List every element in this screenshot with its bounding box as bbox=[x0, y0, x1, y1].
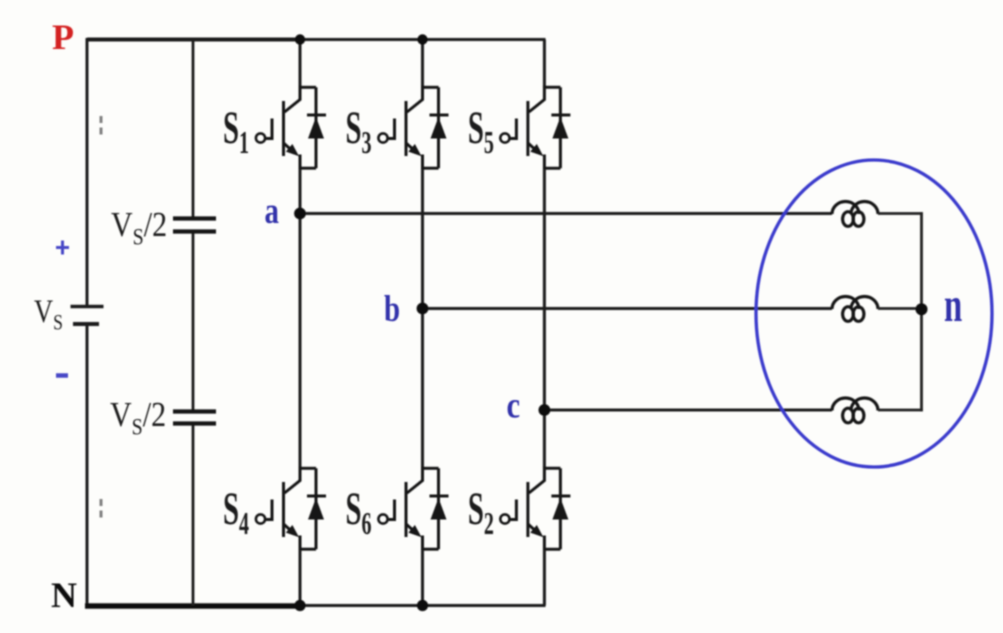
wire capacitor branch top bbox=[192, 38, 195, 217]
svg-text:N: N bbox=[51, 575, 77, 615]
svg-text:VS/2: VS/2 bbox=[110, 396, 166, 440]
load ellipse bbox=[756, 160, 992, 467]
svg-text:S6: S6 bbox=[346, 484, 372, 541]
svg-text:P: P bbox=[52, 17, 74, 57]
wire leg2 emitter to bottom rail bbox=[421, 550, 424, 606]
svg-text:S2: S2 bbox=[468, 484, 494, 541]
svg-text:VS/2: VS/2 bbox=[111, 206, 167, 250]
label S3 bbox=[346, 103, 372, 160]
label - polarity bbox=[56, 373, 68, 378]
svg-text:S4: S4 bbox=[223, 484, 249, 541]
switch S6 IGBT with diode bbox=[378, 467, 448, 551]
label S2 bbox=[468, 484, 494, 541]
node c dot bbox=[539, 404, 551, 416]
dashed artifact lower bbox=[100, 499, 103, 522]
wire bottom DC rail (right segment) bbox=[300, 604, 546, 607]
wire leg1 phase lead a bbox=[299, 169, 302, 468]
label S6 bbox=[346, 484, 372, 541]
node n dot bbox=[916, 303, 928, 315]
wire leg2 collector lead bbox=[421, 40, 424, 88]
label b bbox=[384, 289, 400, 330]
wire capacitor branch middle bbox=[192, 234, 195, 410]
svg-text:a: a bbox=[265, 191, 280, 232]
battery Vs top plate bbox=[71, 305, 104, 308]
wire leg3 collector lead bbox=[543, 40, 546, 88]
svg-text:S3: S3 bbox=[346, 103, 372, 160]
wire leg1 emitter to bottom rail bbox=[299, 550, 302, 606]
label + polarity bbox=[56, 241, 69, 255]
wire phase c to load bbox=[544, 409, 832, 412]
switch S5 IGBT with diode bbox=[500, 86, 570, 170]
label c bbox=[507, 386, 521, 426]
wire left DC bus lower bbox=[86, 325, 89, 608]
wire capacitor branch bottom bbox=[192, 426, 195, 606]
svg-text:S1: S1 bbox=[223, 103, 249, 160]
battery Vs bottom plate bbox=[73, 322, 99, 326]
wire leg2 phase lead b bbox=[421, 169, 424, 468]
svg-text:b: b bbox=[384, 289, 400, 330]
switch S1 IGBT with diode bbox=[256, 86, 326, 170]
switch S4 IGBT with diode bbox=[256, 467, 326, 551]
wire leg1 collector lead bbox=[299, 40, 302, 88]
wire top DC rail P (thick left segment) bbox=[87, 38, 301, 42]
wire phase c coil to neutral bus bbox=[878, 409, 923, 412]
label Vs/2 upper bbox=[111, 206, 167, 250]
junction dot bottom rail leg1 bbox=[294, 600, 305, 611]
junction dot top rail leg2 bbox=[417, 34, 427, 44]
wire neutral bus vertical bbox=[920, 212, 923, 411]
svg-text:S5: S5 bbox=[468, 103, 494, 160]
inductor phase a bbox=[832, 202, 878, 227]
wire top DC rail (right segment to leg 3) bbox=[300, 38, 546, 41]
wire leg3 emitter to bottom rail bbox=[543, 550, 546, 606]
junction dot top rail leg1 bbox=[295, 34, 305, 44]
wire phase b to load bbox=[423, 307, 833, 310]
node a dot bbox=[294, 208, 306, 220]
wire bottom DC rail N (thick left segment) bbox=[85, 603, 302, 609]
wire leg3 phase lead c bbox=[543, 169, 546, 468]
junction dot bottom rail leg2 bbox=[417, 600, 428, 611]
label S5 bbox=[468, 103, 494, 160]
label S4 bbox=[223, 484, 249, 541]
label a bbox=[265, 191, 280, 232]
wire left DC bus upper bbox=[86, 38, 89, 306]
switch S3 IGBT with diode bbox=[378, 86, 448, 170]
capacitor C1 Vs/2 plates bbox=[173, 219, 216, 232]
inductor phase c bbox=[832, 398, 878, 423]
capacitor C2 Vs/2 plates bbox=[173, 412, 216, 424]
label Vs bbox=[34, 293, 63, 335]
svg-text:n: n bbox=[944, 278, 962, 332]
inductor phase b bbox=[832, 297, 878, 322]
label Vs/2 lower bbox=[110, 396, 166, 440]
wire phase a coil to neutral bus bbox=[878, 212, 923, 215]
svg-text:VS: VS bbox=[34, 293, 63, 335]
node b dot bbox=[417, 303, 429, 315]
wire phase b coil to neutral bus bbox=[878, 307, 923, 310]
dashed artifact upper bbox=[100, 116, 103, 139]
wire phase a to load bbox=[300, 212, 832, 215]
label S1 bbox=[223, 103, 249, 160]
label n bbox=[944, 278, 962, 332]
svg-text:c: c bbox=[507, 386, 521, 426]
switch S2 IGBT with diode bbox=[500, 467, 570, 551]
